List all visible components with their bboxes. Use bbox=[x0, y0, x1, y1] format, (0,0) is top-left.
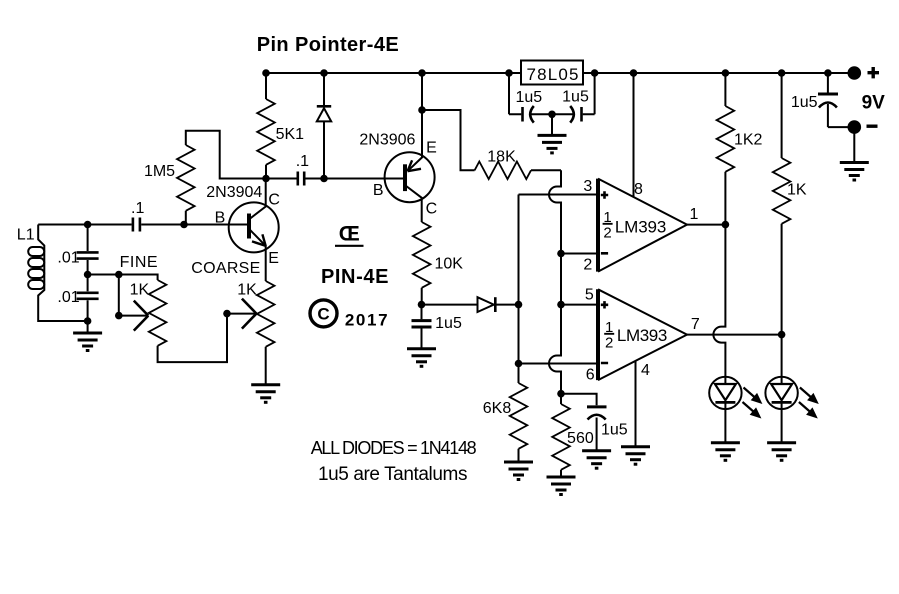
svg-text:2: 2 bbox=[605, 334, 613, 351]
svg-text:C: C bbox=[317, 305, 329, 324]
svg-text:78L05: 78L05 bbox=[527, 65, 579, 84]
svg-text:1K: 1K bbox=[130, 281, 150, 298]
svg-text:1K: 1K bbox=[237, 281, 257, 298]
svg-text:B: B bbox=[373, 182, 384, 199]
svg-text:18K: 18K bbox=[487, 149, 516, 166]
svg-text:B: B bbox=[215, 209, 226, 226]
svg-text:C: C bbox=[426, 201, 438, 218]
svg-text:4: 4 bbox=[641, 362, 650, 379]
svg-text:2N3904: 2N3904 bbox=[206, 184, 262, 201]
svg-text:.01: .01 bbox=[57, 250, 79, 267]
svg-text:9V: 9V bbox=[862, 93, 886, 114]
svg-text:1K: 1K bbox=[787, 182, 807, 199]
svg-text:1: 1 bbox=[603, 209, 611, 226]
svg-text:1u5: 1u5 bbox=[562, 88, 589, 105]
svg-text:6: 6 bbox=[586, 367, 595, 384]
svg-text:C: C bbox=[268, 192, 280, 209]
svg-text:Pin Pointer-4E: Pin Pointer-4E bbox=[257, 34, 399, 56]
svg-text:5K1: 5K1 bbox=[276, 126, 305, 143]
svg-text:E: E bbox=[268, 250, 279, 267]
svg-text:1K2: 1K2 bbox=[734, 132, 763, 149]
svg-text:7: 7 bbox=[691, 316, 700, 333]
svg-text:Œ: Œ bbox=[339, 222, 360, 245]
svg-text:8: 8 bbox=[634, 181, 643, 198]
svg-text:2: 2 bbox=[603, 224, 611, 241]
svg-text:1u5: 1u5 bbox=[791, 94, 818, 111]
svg-text:.1: .1 bbox=[131, 200, 144, 217]
svg-text:ALL DIODES = 1N4148: ALL DIODES = 1N4148 bbox=[311, 438, 477, 458]
svg-text:LM393: LM393 bbox=[617, 326, 667, 345]
svg-text:2N3906: 2N3906 bbox=[359, 132, 415, 149]
svg-text:2: 2 bbox=[583, 257, 592, 274]
svg-text:E: E bbox=[426, 140, 437, 157]
svg-text:2017: 2017 bbox=[345, 311, 388, 330]
svg-text:1: 1 bbox=[690, 206, 699, 223]
svg-text:1u5: 1u5 bbox=[601, 422, 628, 439]
svg-text:LM393: LM393 bbox=[615, 217, 667, 236]
svg-text:5: 5 bbox=[585, 287, 594, 304]
svg-text:.01: .01 bbox=[57, 289, 79, 306]
svg-text:FINE: FINE bbox=[120, 254, 158, 271]
svg-text:1u5: 1u5 bbox=[435, 315, 462, 332]
svg-text:1: 1 bbox=[605, 319, 613, 336]
svg-text:10K: 10K bbox=[434, 256, 463, 273]
svg-text:COARSE: COARSE bbox=[191, 260, 260, 277]
svg-text:1M5: 1M5 bbox=[144, 163, 175, 180]
svg-text:PIN-4E: PIN-4E bbox=[321, 266, 389, 288]
svg-text:1u5 are Tantalums: 1u5 are Tantalums bbox=[318, 464, 468, 485]
svg-text:1u5: 1u5 bbox=[515, 89, 542, 106]
svg-text:3: 3 bbox=[583, 178, 592, 195]
svg-text:.1: .1 bbox=[296, 153, 309, 170]
svg-text:6K8: 6K8 bbox=[483, 400, 512, 417]
svg-text:560: 560 bbox=[567, 430, 594, 447]
svg-text:L1: L1 bbox=[17, 226, 35, 243]
